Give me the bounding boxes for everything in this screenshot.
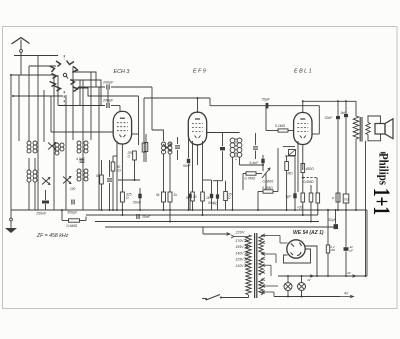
svg-text:MΩ: MΩ — [331, 248, 336, 252]
tube EBL1 U3 — [294, 113, 312, 145]
trimmer C-t3 — [42, 178, 50, 185]
svg-text:5k: 5k — [156, 193, 160, 197]
svg-text:32nF: 32nF — [325, 116, 334, 120]
wire cap50 down — [265, 106, 267, 131]
wire vertical x51 — [50, 96, 52, 132]
bus y221 — [95, 221, 319, 223]
wire speaker down — [365, 141, 367, 276]
wire mid horiz y180 — [118, 179, 140, 181]
wire anode branch — [222, 133, 224, 147]
wire IFT2 bottoms — [232, 158, 234, 211]
capacitor 32uF a — [335, 210, 337, 224]
trimmer C-t2 — [63, 177, 71, 184]
wire EBL left taps — [283, 146, 295, 148]
resistor EF9 k1 — [191, 192, 195, 201]
svg-text:1k: 1k — [174, 193, 178, 197]
coil L2a — [55, 143, 59, 147]
svg-text:E B L 1: E B L 1 — [294, 69, 312, 75]
bus y216 — [86, 214, 318, 216]
resistor 0.7M — [246, 172, 256, 175]
wire vertical x29 — [28, 66, 30, 141]
svg-text:50nF: 50nF — [133, 201, 142, 205]
antenna — [12, 38, 30, 45]
resistor 30k — [111, 162, 115, 171]
resistor EBL k2 — [301, 193, 305, 202]
wire HT to rectifier — [262, 234, 280, 236]
resistor EBL k4 — [316, 178, 318, 193]
capacitor 32uF b — [344, 247, 349, 251]
IF transformer T2 coils — [230, 138, 235, 143]
svg-text:10nF: 10nF — [142, 215, 151, 219]
capacitor EF9 k — [210, 194, 213, 199]
capacitor 200pF lower — [106, 103, 108, 108]
wire vertical x83 — [82, 80, 84, 210]
dial lamp 2 — [298, 283, 306, 291]
capacitor 350pF — [71, 200, 73, 205]
capacitor 6.4nF det — [261, 159, 264, 164]
svg-text:ZF = 458 kHz: ZF = 458 kHz — [36, 233, 69, 239]
power transformer T1 primary — [246, 235, 251, 295]
resistor HT bleeder — [326, 245, 329, 253]
coil L3b — [77, 169, 81, 173]
mains switch — [206, 295, 220, 301]
resistor 0.2M — [263, 190, 273, 193]
svg-text:Ω: Ω — [228, 196, 231, 200]
ground symbol — [10, 210, 12, 218]
capacitor 50nF a — [138, 194, 141, 199]
wire EBL1 legs — [297, 141, 299, 192]
svg-text:125V: 125V — [235, 258, 244, 262]
power transformer taps — [245, 239, 248, 242]
wire 276 arrow mid — [310, 275, 314, 277]
wire heater taps — [262, 264, 271, 266]
capacitor 50nF b — [188, 194, 191, 199]
svg-text:100: 100 — [70, 187, 76, 191]
svg-text:110V: 110V — [236, 264, 245, 268]
wire ECH3 anode — [131, 133, 138, 135]
svg-text:Ω: Ω — [128, 155, 131, 159]
secondary taps — [262, 234, 265, 237]
capacitor 50nF osc — [187, 159, 190, 164]
capacitor osc — [175, 145, 180, 147]
wire 32uFb stubs — [345, 210, 347, 247]
svg-text:155V: 155V — [235, 245, 244, 249]
trimmer osc — [163, 144, 171, 151]
svg-text:50pF: 50pF — [262, 98, 271, 102]
wire EF9 screen — [211, 180, 213, 185]
wire EBL1 anode top — [302, 101, 304, 112]
svg-text:WE 54 (AZ 1): WE 54 (AZ 1) — [293, 230, 324, 236]
svg-text:4,9nF: 4,9nF — [76, 157, 86, 161]
trimmer C-t1 — [48, 143, 56, 150]
junction dots mid — [116, 209, 118, 211]
svg-text:50: 50 — [193, 195, 197, 199]
wire horizontal y132 — [51, 131, 114, 133]
resistor 35ohm — [225, 181, 227, 191]
svg-text:350pF: 350pF — [67, 211, 78, 215]
capacitor 200pF top — [106, 85, 108, 90]
svg-text:E F 9: E F 9 — [193, 69, 206, 75]
resistor tone — [336, 193, 340, 202]
wire 200pF link — [107, 90, 109, 104]
power transformer HT secondary — [259, 235, 263, 254]
resistor 0.1M top — [278, 129, 288, 132]
wire EBL grid — [277, 148, 279, 173]
coil L1a — [27, 141, 31, 145]
resistor 700 — [343, 194, 349, 203]
resistor AVC top — [142, 143, 146, 152]
svg-text:µF: µF — [350, 248, 354, 252]
heater bus y276 — [278, 275, 367, 277]
wire EBL1 anode run — [303, 100, 356, 102]
wire vertical x44 — [43, 90, 45, 142]
resistor 1M left — [285, 162, 289, 171]
potentiometer 0.5M — [262, 168, 270, 178]
svg-text:0,7MΩ: 0,7MΩ — [245, 177, 256, 181]
coil oscillator L4 — [162, 142, 166, 146]
wire horizontal y96 — [13, 95, 63, 97]
capacitor 5uF EBL — [293, 193, 296, 198]
resistor 0.6M — [69, 219, 80, 222]
bus y227 — [105, 226, 334, 228]
svg-text:kΩ: kΩ — [117, 169, 122, 173]
wire staircase 2 — [70, 80, 101, 106]
junction dot antenna bus — [10, 74, 12, 76]
svg-text:0,6MΩ: 0,6MΩ — [67, 224, 78, 228]
tube ECH3 U1 — [113, 111, 131, 144]
wire staircase 1 — [72, 72, 96, 87]
svg-text:0,5MΩ: 0,5MΩ — [263, 180, 274, 184]
capacitor 50nF EF9b — [216, 194, 219, 198]
capacitor 4.9nF — [80, 159, 85, 161]
output transformer core — [359, 117, 361, 142]
band switch S1 — [63, 73, 66, 76]
wire vertical x19 — [18, 75, 20, 141]
tube EF9 U2 — [188, 112, 206, 145]
wire horizontal y66 — [29, 65, 56, 67]
svg-text:0,1MΩ: 0,1MΩ — [275, 124, 286, 128]
wire ECH3 legs — [116, 141, 118, 210]
svg-text:ECH 3: ECH 3 — [114, 69, 130, 75]
capacitor EBL box — [289, 150, 296, 156]
capacitor 10nF bus — [136, 214, 138, 219]
dial lamp 1 — [284, 283, 292, 291]
svg-text:1k: 1k — [206, 196, 210, 200]
svg-text:5µF: 5µF — [286, 195, 293, 199]
resistor 5k — [162, 192, 166, 202]
svg-text:50nF: 50nF — [183, 164, 192, 168]
power transformer tap220 — [231, 235, 234, 238]
wire vertical antenna stem — [20, 56, 22, 75]
wire y105 to ECH3 top — [111, 105, 120, 107]
wire grid line — [144, 97, 210, 99]
bus junction dots — [61, 209, 63, 211]
svg-text:0,2MΩ: 0,2MΩ — [262, 186, 273, 190]
wire vertical x73 — [72, 66, 74, 140]
capacitor IFT2 — [253, 146, 258, 148]
wire vertical x80 — [79, 80, 81, 106]
output transformer T3 primary — [353, 116, 359, 139]
loudspeaker — [375, 124, 385, 135]
wire vertical x91 — [90, 72, 92, 140]
resistor 200 — [133, 151, 137, 160]
wire IFT2 top — [207, 132, 240, 134]
wire vertical x11 — [10, 75, 12, 210]
wire osc links — [139, 133, 147, 135]
svg-text:MΩ: MΩ — [288, 172, 294, 176]
wire staircase 3 — [74, 88, 139, 96]
wire mains arrow — [202, 227, 204, 234]
speaker terminal bar — [381, 152, 386, 154]
wire EF9 legs — [192, 141, 194, 192]
wire rectifier routing — [284, 249, 311, 263]
svg-text:50: 50 — [186, 196, 190, 200]
wire vertical x54 — [53, 75, 55, 210]
svg-text:4V: 4V — [347, 271, 352, 275]
svg-text:6,4nF: 6,4nF — [250, 161, 260, 165]
svg-text:450Ω: 450Ω — [306, 167, 315, 171]
capacitor 150nF — [42, 201, 49, 204]
capacitor small mid — [107, 178, 112, 180]
svg-text:Philips: Philips — [377, 153, 391, 185]
svg-text:32µF: 32µF — [328, 218, 337, 222]
rectifier tube WE54 (AZ1) — [287, 240, 305, 258]
svg-text:220V: 220V — [235, 231, 245, 235]
svg-text:+20: +20 — [297, 206, 303, 210]
capacitor 50pF — [266, 103, 269, 109]
svg-text:4V: 4V — [344, 292, 349, 296]
svg-text:200pF: 200pF — [102, 81, 114, 85]
wire lower coil links — [24, 141, 26, 158]
svg-text:140V: 140V — [235, 251, 244, 255]
wire vertical x58 — [57, 75, 59, 106]
coil L3a — [77, 141, 81, 145]
svg-text:Ω: Ω — [126, 196, 129, 200]
svg-text:1+1: 1+1 — [369, 188, 394, 215]
resistor EF9 k2 — [201, 192, 205, 201]
resistor 1k — [168, 192, 172, 202]
resistor osc grid — [144, 143, 148, 152]
svg-text:150nF: 150nF — [36, 212, 47, 216]
wire horizontal y55 — [14, 55, 58, 57]
resistor 325 — [120, 192, 124, 202]
wire heater 4V — [274, 296, 340, 298]
svg-text:0,6MΩ: 0,6MΩ — [304, 180, 315, 184]
svg-text:700: 700 — [344, 198, 349, 202]
svg-text:Ω: Ω — [332, 196, 335, 200]
resistor 450 cath — [301, 164, 305, 173]
resistor EBL k3 — [309, 193, 313, 202]
wire y105 run — [58, 105, 105, 107]
wire EF9 top cap — [197, 98, 199, 112]
wire 0.6M stubs — [62, 220, 69, 222]
wire EBL 5uF stem — [294, 156, 296, 190]
svg-text:170V: 170V — [235, 239, 244, 243]
ground bus y210 — [11, 209, 367, 211]
bus right verticals — [366, 210, 368, 276]
power transformer core — [254, 233, 256, 298]
coil L1b — [27, 170, 31, 174]
wire vertical x66 — [65, 95, 67, 210]
output transformer secondary — [366, 123, 370, 135]
wire 0.6M dashes — [303, 177, 317, 179]
resistor 50 left — [100, 175, 104, 184]
wire y87 cap right — [111, 86, 152, 88]
junction dots anode — [337, 100, 339, 102]
svg-text:50: 50 — [96, 174, 100, 178]
wire vertical x99 — [98, 87, 100, 210]
wire mains lower — [202, 298, 207, 300]
wire horizontal y75 — [11, 74, 54, 76]
wire vertical x38 — [37, 56, 39, 211]
wire y87 run — [78, 86, 105, 88]
svg-text:4V: 4V — [307, 278, 312, 282]
wire det — [240, 164, 264, 166]
